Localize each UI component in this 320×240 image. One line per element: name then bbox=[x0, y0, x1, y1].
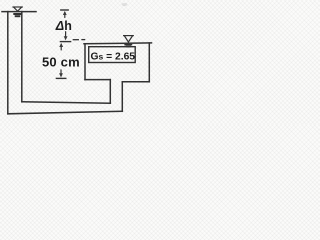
wire channel outer bottom edge bbox=[8, 111, 123, 114]
wire standpipe right wall bbox=[21, 12, 23, 102]
wire tank right wall bbox=[148, 43, 150, 82]
wire standpipe water surface line bbox=[2, 11, 36, 13]
node water-surface symbol (tank): nabla triangle bbox=[124, 36, 134, 42]
dimension Δh: upper arrow (points up) bbox=[64, 13, 66, 18]
wire opening left vertical (channel to tank) bbox=[109, 80, 111, 104]
node water-surface symbol (tank): under-ticks bbox=[125, 45, 131, 47]
wire channel inner top edge bbox=[22, 102, 111, 103]
dimension 50cm: bottom reference bar bbox=[56, 77, 65, 79]
wire tank water surface line bbox=[84, 42, 152, 45]
dimension 50cm: upper arrow (points up) bbox=[60, 45, 62, 50]
faint scan smudge artifact bbox=[122, 3, 128, 6]
dimension 50cm: lower arrow (points down) bbox=[60, 70, 62, 74]
wire tank bottom left segment bbox=[85, 79, 110, 81]
wire standpipe left wall bbox=[7, 12, 9, 114]
dimension Δh: top reference bar bbox=[61, 9, 68, 11]
node soil sample label box Gs bbox=[89, 47, 136, 63]
svg-text:50 cm: 50 cm bbox=[42, 54, 80, 69]
svg-text:Gs = 2.65: Gs = 2.65 bbox=[91, 51, 136, 62]
wire tank bottom right segment bbox=[122, 81, 149, 83]
dimension Δh: bottom reference bar bbox=[60, 41, 70, 43]
wire opening right vertical (tank to channel) bbox=[121, 82, 123, 112]
svg-text:Δh: Δh bbox=[55, 19, 72, 33]
wire dashed extension of tank water level bbox=[73, 39, 84, 41]
node water-surface symbol (standpipe): nabla triangle bbox=[13, 7, 22, 11]
wire tank left wall bbox=[84, 44, 86, 80]
dimension Δh: lower arrow (points down) bbox=[65, 32, 67, 37]
node water-surface symbol (standpipe): under-ticks bbox=[14, 14, 20, 16]
